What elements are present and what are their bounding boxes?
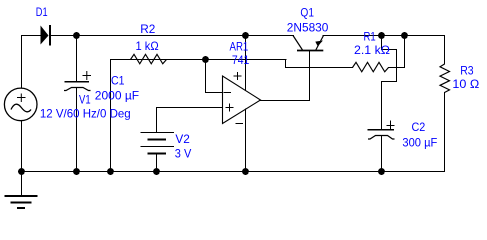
svg-text:1 kΩ: 1 kΩ [136, 39, 159, 53]
svg-text:2.1 kΩ: 2.1 kΩ [354, 43, 390, 57]
svg-text:10 Ω: 10 Ω [452, 77, 479, 91]
svg-text:741: 741 [232, 53, 250, 67]
svg-text:2000 µF: 2000 µF [95, 89, 139, 103]
svg-text:V1: V1 [79, 92, 91, 106]
svg-text:C2: C2 [412, 120, 426, 134]
svg-text:V2: V2 [175, 132, 190, 146]
svg-text:Q1: Q1 [300, 5, 314, 19]
svg-text:R3: R3 [460, 63, 474, 77]
svg-text:12 V/60 Hz/0 Deg: 12 V/60 Hz/0 Deg [40, 106, 131, 120]
svg-text:2N5830: 2N5830 [287, 21, 329, 35]
svg-text:R2: R2 [140, 22, 155, 36]
svg-text:AR1: AR1 [230, 39, 249, 53]
svg-text:R1: R1 [364, 29, 376, 43]
svg-text:C1: C1 [111, 74, 125, 88]
svg-text:3 V: 3 V [175, 147, 192, 161]
svg-text:D1: D1 [36, 5, 48, 19]
svg-text:300 µF: 300 µF [402, 135, 437, 149]
